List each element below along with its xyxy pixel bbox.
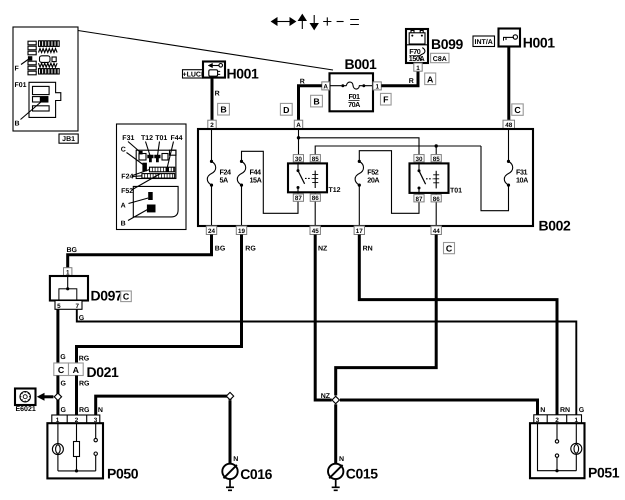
svg-text:RG: RG	[245, 246, 256, 253]
svg-text:F: F	[383, 95, 389, 105]
arrow to E6021	[44, 395, 53, 398]
wire R B001 to B002 pin A	[299, 86, 322, 121]
wire T12 pin86 to pin 45	[314, 192, 316, 226]
svg-text:G: G	[61, 380, 67, 387]
cigar lighter P050 body	[47, 423, 103, 478]
svg-text:R: R	[215, 91, 220, 98]
svg-text:F: F	[15, 66, 20, 73]
svg-text:B: B	[220, 105, 226, 115]
ignition switch H001 +LUCI box	[183, 70, 204, 78]
socket P051 body	[530, 423, 585, 478]
svg-text:JB1: JB1	[62, 136, 75, 143]
inset lower icon	[133, 186, 178, 217]
fuse F highlight mark	[28, 56, 32, 60]
svg-text:R: R	[409, 78, 414, 85]
inset leader T12	[146, 142, 151, 156]
legend equals	[350, 20, 359, 25]
inset C mark	[142, 163, 147, 172]
inset leader T01	[158, 142, 160, 156]
inset B mark	[147, 205, 156, 213]
inset relay-carrier icon	[136, 150, 176, 178]
svg-text:150A: 150A	[409, 54, 425, 63]
svg-text:D: D	[283, 105, 289, 115]
svg-text:87: 87	[295, 195, 303, 202]
svg-text:86: 86	[312, 195, 320, 202]
relay T01 body	[410, 163, 449, 193]
svg-text:G: G	[60, 354, 66, 361]
relay T12 pin 85 box	[310, 155, 320, 162]
svg-text:E6021: E6021	[16, 406, 36, 413]
branch node G	[54, 393, 61, 400]
P050 lamp	[52, 423, 63, 471]
svg-text:F52: F52	[121, 188, 133, 195]
int/a label box	[473, 36, 495, 47]
inset T01 mark	[154, 155, 160, 163]
svg-text:P051: P051	[588, 465, 620, 481]
ground C016 symbol	[222, 464, 237, 491]
relay T12 body	[288, 163, 327, 192]
relay T12 pin 87 box	[293, 194, 303, 201]
inset leader C	[127, 153, 144, 165]
svg-text:+LUCI: +LUCI	[182, 71, 202, 78]
svg-text:RG: RG	[79, 381, 90, 388]
svg-text:RG: RG	[79, 407, 90, 414]
boxed label C8A	[431, 53, 449, 62]
svg-text:N: N	[233, 456, 238, 463]
fuse F31	[504, 160, 512, 187]
wire N node to P051 pin3	[340, 400, 538, 415]
label B leader	[21, 102, 42, 120]
svg-text:A: A	[121, 203, 126, 210]
svg-text:RN: RN	[363, 246, 373, 253]
fuse F44	[237, 160, 245, 187]
pin 17 of B002	[354, 226, 364, 235]
connector D097 pin 1	[64, 268, 72, 276]
junction unit B002 body	[198, 129, 533, 226]
wire R H001 to pin 2	[211, 78, 214, 121]
fusebox inset JB1 frame	[13, 27, 78, 131]
wire T01 pin86 to pin 44	[435, 193, 437, 226]
inset leader F31	[128, 142, 140, 152]
JB1 label box	[59, 134, 78, 143]
svg-text:A: A	[427, 74, 434, 84]
svg-text:P050: P050	[107, 465, 139, 481]
wire H001 to pin 48	[507, 47, 510, 121]
inset leader B	[128, 210, 148, 221]
svg-text:T12: T12	[329, 187, 341, 194]
svg-text:15A: 15A	[250, 176, 262, 185]
svg-text:85: 85	[312, 156, 320, 163]
ignition switch H001 right body	[499, 29, 521, 47]
wire G D021 to P050 pin1	[56, 376, 59, 416]
wire F44 to pin 19	[241, 185, 243, 226]
pin 44 of B002	[431, 226, 441, 235]
boxed label D	[280, 103, 292, 115]
svg-text:B: B	[121, 221, 126, 228]
boxed label C	[512, 104, 523, 115]
svg-text:C016: C016	[240, 466, 272, 482]
connector D021 pin C	[54, 363, 69, 376]
svg-text:T01: T01	[155, 135, 167, 142]
inset leader F44	[167, 142, 173, 168]
node pin85 bus	[435, 144, 438, 147]
D097 internal link	[59, 276, 77, 301]
wire pin44 to node	[336, 235, 437, 396]
svg-text:19: 19	[238, 228, 246, 235]
svg-text:N: N	[339, 456, 344, 463]
svg-text:B099: B099	[431, 36, 463, 52]
svg-text:1: 1	[416, 65, 420, 72]
boxed label F	[381, 93, 392, 105]
svg-text:RN: RN	[560, 407, 570, 414]
svg-text:INT/A: INT/A	[475, 38, 493, 46]
legend double arrow	[272, 18, 296, 26]
wire F24 to pin 24	[211, 185, 213, 226]
pin 2 of B002	[208, 120, 216, 129]
T01 coil	[433, 171, 439, 189]
B001 internal fuse F01	[330, 82, 374, 89]
relay T01 pin 87 box	[414, 195, 424, 202]
svg-text:F44: F44	[171, 135, 183, 142]
svg-text:F31: F31	[122, 135, 134, 142]
T01 switch contacts	[418, 163, 426, 193]
pin 45 of B002	[310, 226, 320, 235]
relay T01 pin 30 box	[414, 155, 424, 162]
pin 48 of B002	[503, 120, 515, 129]
boxed label B	[311, 95, 323, 107]
svg-text:87: 87	[415, 196, 423, 203]
svg-text:85: 85	[433, 156, 441, 163]
wire F31 to pin85 bus	[481, 146, 509, 211]
boxed label A	[425, 73, 436, 85]
inset leader F24	[133, 170, 150, 177]
legend plus	[323, 17, 331, 25]
fuse holder B001 body	[330, 73, 374, 111]
legend down arrow	[310, 15, 318, 30]
svg-text:N: N	[98, 407, 103, 414]
inset F44 mark	[166, 167, 169, 172]
svg-text:G: G	[579, 407, 585, 414]
battery B099 body	[406, 29, 428, 63]
relay B highlight mark	[40, 97, 48, 102]
svg-text:C: C	[514, 105, 521, 115]
B001 pin 1	[373, 82, 381, 90]
svg-text:C015: C015	[346, 465, 378, 481]
svg-text:C: C	[446, 244, 453, 254]
B099 pin 1	[414, 63, 422, 71]
wire G D097 pin5 down	[56, 309, 59, 363]
svg-text:17: 17	[356, 228, 364, 235]
pin 24 of B002	[206, 226, 216, 235]
boxed label C	[444, 243, 455, 254]
pin 19 of B002	[236, 226, 246, 235]
pin A of B002	[294, 120, 302, 129]
wire node A	[297, 136, 300, 139]
svg-text:B: B	[313, 97, 319, 107]
svg-text:45: 45	[312, 228, 320, 235]
ignition switch H001 left body	[203, 62, 225, 78]
relay T01 pin 86 box	[431, 195, 441, 202]
wire RN pin17 to P051 pin2	[359, 235, 557, 415]
svg-text:C: C	[123, 292, 130, 302]
wire F52 to pin 17	[358, 185, 360, 226]
svg-text:H001: H001	[523, 34, 555, 50]
svg-text:D021: D021	[87, 364, 119, 380]
wire NZ pin45 to node	[315, 235, 332, 401]
inset T12 mark	[147, 155, 153, 163]
svg-text:C8A: C8A	[433, 56, 447, 63]
wire F52 to T01 pin87	[359, 151, 419, 214]
inset leader F52	[132, 174, 161, 191]
T12 coil	[312, 171, 318, 188]
P051 ground branch	[538, 423, 577, 471]
svg-text:5: 5	[57, 303, 61, 310]
svg-text:B001: B001	[345, 56, 377, 72]
B001 pin A	[322, 82, 330, 90]
T01 mechanical link	[426, 178, 433, 180]
wire pin2 to F24	[211, 129, 213, 161]
fuse F24	[207, 160, 215, 187]
svg-text:B: B	[15, 121, 20, 128]
svg-text:BG: BG	[67, 247, 78, 254]
svg-text:F01: F01	[15, 82, 27, 89]
P050 internal bus	[58, 470, 96, 472]
svg-text:NZ: NZ	[321, 393, 331, 400]
svg-text:A: A	[323, 84, 328, 91]
B099 battery icon	[406, 31, 428, 45]
H001 right key icon	[503, 35, 518, 41]
connector D097 body	[50, 276, 88, 301]
connector D021 pin A	[69, 363, 84, 376]
svg-text:10A: 10A	[516, 176, 528, 185]
wire pin48 to F31	[508, 129, 510, 161]
wire G D097 pin7 to P051 pin1	[77, 309, 577, 415]
wire RG pin19 to D021	[77, 235, 242, 364]
boxed label B	[218, 103, 230, 115]
wire T01 pin85 stub	[435, 146, 437, 163]
svg-text:C: C	[121, 147, 126, 154]
svg-text:A: A	[73, 365, 80, 375]
svg-text:G: G	[61, 407, 67, 414]
svg-text:B002: B002	[539, 218, 571, 234]
wire RG D021 to P050 pin2	[75, 376, 78, 416]
svg-text:D097: D097	[91, 288, 123, 304]
P050 switch contacts	[94, 423, 97, 471]
node NZ diamond	[332, 396, 339, 403]
relay T12 pin 86 box	[310, 194, 320, 201]
legend minus	[337, 21, 344, 23]
svg-text:1: 1	[375, 84, 379, 91]
svg-text:70A: 70A	[348, 100, 360, 109]
B002 location inset frame	[117, 124, 187, 230]
leader line inset to B099	[78, 31, 333, 71]
wire C016 node to ground	[229, 400, 232, 463]
JB1 fuse panel icon	[28, 41, 59, 75]
wire A to T12 pin30	[298, 129, 300, 163]
wire N C016 to P050 pin3	[96, 396, 230, 415]
svg-text:30: 30	[415, 156, 423, 163]
fuse F52	[355, 160, 363, 187]
wire T12 pin85 bus	[315, 146, 481, 163]
B099 fuse squiggle	[420, 48, 425, 61]
T12 mechanical link	[305, 177, 312, 179]
ground C015 symbol	[328, 464, 343, 491]
svg-text:T01: T01	[450, 188, 462, 195]
wire F44 to T12 pin87	[242, 151, 299, 213]
svg-text:5A: 5A	[220, 176, 229, 185]
wire R B001 pin1 to B099	[381, 71, 418, 86]
relay T01 pin 85 box	[431, 155, 441, 162]
illumination symbol E6021	[15, 389, 36, 406]
boxed label C	[121, 291, 132, 302]
P050 heater element	[74, 423, 80, 471]
socket P051 pin row	[534, 415, 582, 423]
P051 switch contacts	[555, 423, 558, 471]
svg-text:20A: 20A	[367, 176, 379, 185]
inset A mark	[148, 192, 153, 200]
legend up arrow	[299, 15, 307, 30]
svg-text:7: 7	[76, 303, 80, 310]
svg-text:BG: BG	[215, 246, 226, 253]
svg-text:44: 44	[433, 228, 441, 235]
JB1 relay icon	[29, 82, 61, 117]
T12 switch contacts	[297, 163, 305, 192]
H001 left key icon	[208, 63, 222, 76]
svg-text:T12: T12	[141, 135, 153, 142]
D097 pins 5 7 box	[55, 301, 82, 310]
svg-text:RG: RG	[79, 356, 90, 363]
wire C015 node to ground	[334, 404, 337, 464]
svg-text:30: 30	[295, 156, 303, 163]
wire BG pin24 to D097	[68, 235, 212, 268]
inset F31 mark	[139, 151, 143, 155]
svg-text:G: G	[79, 315, 85, 322]
svg-text:R: R	[300, 78, 305, 85]
node C016 diamond	[226, 392, 233, 399]
P051 lamp	[571, 423, 582, 471]
wire A to T01 pin30	[299, 138, 420, 164]
svg-text:NZ: NZ	[318, 246, 328, 253]
svg-text:C: C	[58, 365, 65, 375]
label F leader	[21, 59, 30, 65]
inset leader A	[129, 198, 149, 204]
svg-text:24: 24	[208, 228, 216, 235]
relay T12 pin 30 box	[293, 155, 303, 162]
svg-text:H001: H001	[227, 66, 259, 82]
cigar lighter P050 pin row	[52, 415, 100, 423]
svg-text:F24: F24	[121, 174, 133, 181]
svg-text:86: 86	[433, 196, 441, 203]
svg-text:N: N	[540, 407, 545, 414]
